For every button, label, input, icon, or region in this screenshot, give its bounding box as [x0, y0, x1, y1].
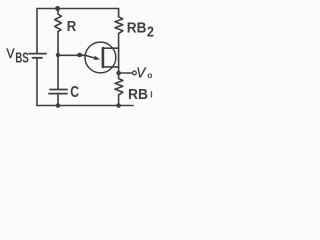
wire top rail — [37, 8, 119, 10]
node bottom left junction — [56, 103, 61, 108]
wire C to bottom — [57, 94, 59, 106]
wire R to C branch — [57, 32, 59, 89]
svg-text:BS: BS — [15, 51, 29, 67]
svg-text:o: o — [147, 70, 152, 80]
resistor RB1 — [115, 79, 123, 95]
wire right rail mid — [118, 33, 120, 78]
svg-text:V: V — [136, 65, 146, 81]
svg-text:C: C — [70, 84, 79, 101]
transistor arrow — [94, 56, 100, 60]
node top junction — [55, 6, 60, 11]
capacitor C — [50, 89, 67, 91]
transistor Q1 — [85, 42, 116, 73]
node base dot — [77, 53, 82, 57]
node base junction — [56, 53, 60, 57]
wire left rail upper — [36, 9, 38, 54]
svg-text:R: R — [67, 18, 77, 35]
node output junction — [116, 71, 121, 76]
battery VBS — [29, 53, 46, 55]
terminal Vo — [133, 71, 137, 75]
wire left rail lower — [36, 58, 38, 106]
svg-text:RB: RB — [128, 86, 148, 103]
resistor RB2 — [115, 17, 123, 34]
wire right rail lower — [118, 95, 120, 106]
svg-text:2: 2 — [147, 25, 154, 41]
wire base — [58, 54, 85, 56]
svg-text:V: V — [6, 45, 15, 61]
resistor R — [55, 9, 62, 32]
wire bottom rail — [37, 105, 133, 107]
wire right rail upper — [118, 9, 120, 17]
wire output tap — [119, 72, 133, 74]
svg-text:RB: RB — [127, 20, 147, 37]
node bottom right junction — [116, 103, 121, 108]
